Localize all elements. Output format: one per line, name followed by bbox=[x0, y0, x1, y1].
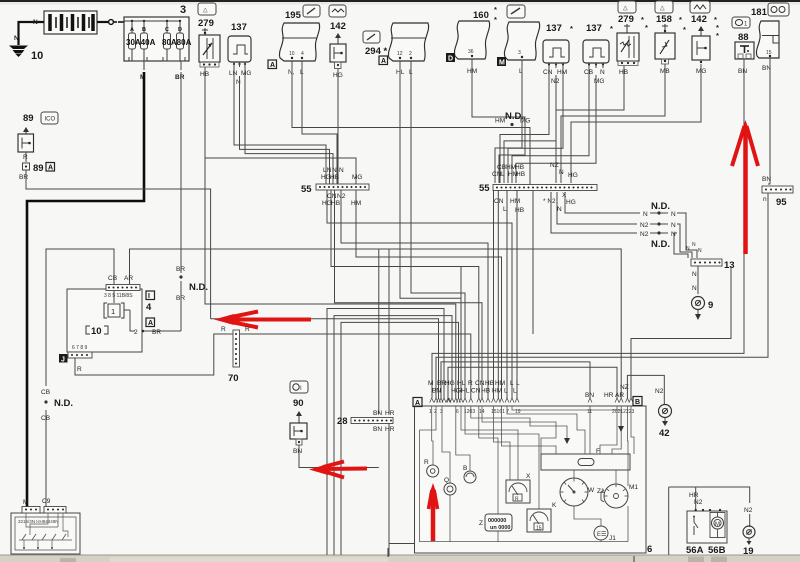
svg-text:BR: BR bbox=[19, 174, 28, 181]
svg-text:J1: J1 bbox=[609, 535, 616, 542]
svg-text:N: N bbox=[643, 211, 648, 218]
vertical BR runs to 28 connector bbox=[379, 249, 389, 414]
svg-text:AR: AR bbox=[124, 275, 133, 282]
wires from 137* first down to 55R bbox=[500, 68, 549, 183]
svg-text:MG: MG bbox=[352, 174, 362, 181]
direct drops from 55 right to cluster bbox=[494, 190, 518, 398]
svg-text:BN: BN bbox=[373, 426, 382, 433]
svg-text:N: N bbox=[686, 246, 690, 252]
svg-text:B: B bbox=[463, 465, 467, 472]
svg-text:15: 15 bbox=[536, 526, 542, 532]
connector B label bbox=[633, 397, 642, 406]
svg-text:BR: BR bbox=[175, 74, 185, 81]
svg-text:HM: HM bbox=[495, 118, 505, 125]
svg-text:HG: HG bbox=[445, 380, 455, 387]
internal symbol 1 bbox=[104, 303, 107, 318]
svg-text:N2: N2 bbox=[744, 507, 753, 514]
svg-text:L: L bbox=[513, 388, 517, 395]
wires from 137* second down to 55R bbox=[512, 68, 589, 183]
svg-text:I: I bbox=[148, 293, 150, 300]
svg-text:N.D.: N.D. bbox=[651, 201, 670, 212]
svg-text:279: 279 bbox=[198, 18, 214, 29]
svg-text:N: N bbox=[671, 222, 676, 229]
svg-text:HB: HB bbox=[481, 388, 490, 395]
wire HM 55L to pin HM2 bbox=[356, 190, 502, 398]
wire battery to fusebox with splice bbox=[97, 20, 124, 25]
svg-text:N: N bbox=[671, 211, 676, 218]
56B motor bbox=[712, 517, 724, 529]
stub row N2-N second bbox=[551, 192, 637, 233]
svg-text:142: 142 bbox=[330, 21, 346, 32]
svg-text:A: A bbox=[415, 400, 420, 407]
lamp E/J1 bbox=[594, 526, 616, 542]
hat wire 2 bbox=[334, 316, 452, 555]
svg-text:3: 3 bbox=[440, 409, 443, 415]
svg-text:L: L bbox=[510, 380, 514, 387]
svg-text:28: 28 bbox=[337, 416, 348, 427]
svg-text:N: N bbox=[559, 169, 564, 176]
svg-text:90: 90 bbox=[293, 398, 304, 409]
svg-text:160: 160 bbox=[473, 10, 489, 21]
svg-text:89: 89 bbox=[33, 163, 44, 174]
svg-text:HM: HM bbox=[510, 198, 520, 205]
fuse D bbox=[179, 21, 181, 33]
wire HG 55L to pin L2 bbox=[327, 190, 512, 398]
svg-text:HB: HB bbox=[331, 200, 340, 207]
svg-text:n: n bbox=[763, 196, 767, 203]
small junction arrows inside bbox=[564, 438, 570, 444]
component 158 with icon bbox=[655, 1, 686, 75]
svg-text:N: N bbox=[33, 19, 38, 26]
svg-text:195: 195 bbox=[285, 10, 302, 21]
svg-text:3215/3N HH94448N: 3215/3N HH94448N bbox=[18, 519, 59, 524]
svg-text:CB: CB bbox=[41, 389, 50, 396]
component 279* right with icon bbox=[617, 1, 648, 76]
connector 4 strip bbox=[106, 285, 140, 291]
svg-text:56B: 56B bbox=[708, 545, 726, 556]
wire AR long run to cluster B bbox=[124, 249, 621, 398]
svg-text:4: 4 bbox=[301, 51, 304, 57]
fuse A bbox=[131, 21, 133, 33]
svg-text:181: 181 bbox=[751, 7, 768, 18]
svg-text:*: * bbox=[494, 15, 497, 24]
svg-text:N: N bbox=[600, 69, 605, 76]
svg-text:88: 88 bbox=[738, 32, 749, 43]
hat wire 1 (cluster up-over-down to page bottom) bbox=[327, 309, 444, 556]
connector 55 left bbox=[301, 167, 369, 207]
svg-text:*: * bbox=[494, 5, 497, 14]
fuse C bbox=[166, 21, 168, 33]
svg-text:BR: BR bbox=[176, 266, 185, 273]
svg-text:10: 10 bbox=[91, 326, 102, 337]
svg-text:N: N bbox=[698, 248, 702, 254]
svg-text:R: R bbox=[221, 326, 226, 333]
svg-text:55: 55 bbox=[301, 184, 312, 195]
svg-text:HB: HB bbox=[485, 380, 494, 387]
svg-text:2: 2 bbox=[434, 409, 437, 415]
svg-text:HB: HB bbox=[515, 164, 524, 171]
bottom left connector box bbox=[11, 499, 80, 554]
svg-text:3 8 5 11B/8S: 3 8 5 11B/8S bbox=[104, 293, 133, 299]
wire battery to ground, label N bbox=[14, 19, 44, 42]
svg-text:6: 6 bbox=[456, 409, 459, 415]
svg-text:BN: BN bbox=[738, 68, 747, 75]
svg-text:HL: HL bbox=[461, 388, 470, 395]
svg-text:N: N bbox=[692, 285, 697, 292]
wires from 195 bbox=[292, 61, 530, 184]
wire pin23 to right riser bbox=[631, 266, 731, 398]
red annotation arrow up (right) bbox=[732, 120, 758, 254]
svg-text:*: * bbox=[570, 24, 573, 33]
connector 55 right bbox=[479, 162, 597, 214]
connector 28 bbox=[337, 410, 395, 433]
component 88 with icon bbox=[732, 17, 754, 75]
wire HB from 279 bbox=[205, 67, 456, 398]
speedometer W bbox=[560, 470, 595, 506]
svg-text:N2: N2 bbox=[640, 231, 649, 238]
svg-text:X: X bbox=[526, 473, 531, 480]
svg-text:HR: HR bbox=[604, 392, 614, 399]
wire CB to connector 4 and down to bottom connector bbox=[41, 249, 117, 505]
connector 70 (vertical) bbox=[228, 330, 240, 384]
svg-text:137: 137 bbox=[586, 23, 602, 34]
svg-text:CB: CB bbox=[497, 164, 506, 171]
svg-text:B: B bbox=[142, 27, 146, 33]
svg-text:N.D.: N.D. bbox=[651, 239, 670, 250]
svg-text:N2: N2 bbox=[694, 499, 703, 506]
bottom window strip bbox=[0, 555, 800, 562]
wires from 137 left to connector 55L bbox=[234, 67, 326, 184]
svg-text:K: K bbox=[552, 502, 557, 509]
connector A label bbox=[413, 398, 422, 407]
svg-text:*: * bbox=[641, 15, 644, 24]
svg-text:L: L bbox=[516, 380, 520, 387]
svg-text:E☰: E☰ bbox=[597, 531, 606, 538]
svg-text:△: △ bbox=[203, 8, 208, 14]
internal sensor B bbox=[456, 406, 476, 483]
red annotation arrow left (lower) bbox=[309, 462, 367, 478]
svg-text:C: C bbox=[165, 27, 169, 33]
pin numbers bbox=[429, 409, 634, 415]
svg-text:*: * bbox=[716, 31, 719, 40]
svg-text:A: A bbox=[270, 62, 275, 69]
svg-text:N.D.: N.D. bbox=[505, 111, 524, 122]
svg-text:36: 36 bbox=[468, 49, 474, 55]
cluster pin labels row2 bbox=[432, 388, 517, 395]
svg-text:R: R bbox=[245, 326, 250, 333]
svg-text:* N2: * N2 bbox=[543, 198, 556, 205]
wire NZ to lamp 42 bbox=[620, 375, 664, 404]
svg-text:158: 158 bbox=[656, 14, 672, 25]
svg-text:R: R bbox=[468, 380, 473, 387]
wire from 142* bbox=[571, 64, 701, 183]
svg-text:2: 2 bbox=[409, 51, 412, 57]
svg-text:CN: CN bbox=[327, 193, 337, 200]
svg-text:BN: BN bbox=[762, 176, 771, 183]
svg-text:LN: LN bbox=[229, 70, 238, 77]
svg-text:M: M bbox=[715, 522, 720, 528]
red annotation arrow left (middle) bbox=[214, 312, 311, 328]
svg-text:CB: CB bbox=[108, 275, 117, 282]
stub row N-N bbox=[565, 192, 640, 213]
wire from 279* bbox=[556, 66, 624, 183]
wire 55R drop x533 bbox=[532, 191, 534, 334]
svg-text:J: J bbox=[61, 357, 65, 364]
svg-text:N: N bbox=[692, 271, 697, 278]
wire BN from 181 to connector 95 bbox=[762, 58, 771, 184]
svg-text:3: 3 bbox=[180, 4, 186, 16]
svg-text:55: 55 bbox=[479, 183, 490, 194]
svg-text:N: N bbox=[692, 242, 696, 248]
svg-text:10: 10 bbox=[31, 50, 43, 62]
svg-text:BR: BR bbox=[152, 329, 161, 336]
svg-text:M: M bbox=[428, 380, 433, 387]
svg-text:R: R bbox=[424, 459, 429, 466]
internal gauge R (left) bbox=[424, 406, 439, 477]
svg-text:HB: HB bbox=[330, 174, 339, 181]
svg-text:137: 137 bbox=[231, 22, 247, 33]
wiper motor assembly 56A 56B bbox=[669, 487, 750, 556]
svg-text:*: * bbox=[645, 23, 648, 32]
hat wire 3 bbox=[341, 322, 459, 555]
svg-text:HM: HM bbox=[492, 388, 502, 395]
lamp 9 bbox=[692, 297, 714, 321]
internal lamp Q bbox=[442, 406, 456, 495]
svg-text:*: * bbox=[610, 24, 613, 33]
jumper HG pin to HR B-pin bbox=[448, 367, 617, 398]
stub row N2-N bbox=[557, 192, 637, 224]
svg-text:HR: HR bbox=[689, 492, 699, 499]
svg-text:R: R bbox=[515, 497, 519, 503]
wire from 142 bbox=[337, 69, 339, 184]
svg-text:D: D bbox=[448, 56, 453, 63]
instrument cluster 6 bbox=[413, 380, 652, 555]
wire BN from 90 to 28 drop bbox=[299, 445, 379, 468]
svg-text:9: 9 bbox=[708, 300, 713, 311]
wire HB 55L to pin CN2 bbox=[335, 190, 483, 398]
wire from flag M bbox=[495, 60, 522, 183]
internal label 10 bbox=[86, 326, 90, 334]
component 137 left bbox=[228, 22, 251, 86]
svg-text:N2: N2 bbox=[640, 222, 649, 229]
connector 95 bbox=[762, 186, 793, 208]
svg-text:HB: HB bbox=[516, 171, 525, 178]
svg-text:ICO: ICO bbox=[45, 117, 56, 123]
svg-text:BN: BN bbox=[373, 410, 382, 417]
wire M from fuse B (thick) bbox=[27, 61, 145, 506]
svg-text:W: W bbox=[588, 487, 595, 494]
component 160 flag with icon bbox=[446, 5, 525, 75]
svg-text:R: R bbox=[23, 154, 28, 161]
svg-text:N: N bbox=[557, 206, 562, 213]
svg-text:M1: M1 bbox=[629, 484, 638, 491]
svg-text:142: 142 bbox=[691, 14, 707, 25]
ground 10 bbox=[9, 38, 43, 62]
jumper BR pin to BN B-pin bbox=[441, 362, 590, 398]
lamp 19 bbox=[743, 507, 755, 557]
svg-text:A: A bbox=[48, 165, 53, 172]
svg-text:A: A bbox=[148, 320, 153, 327]
svg-text:L: L bbox=[504, 388, 508, 395]
svg-text:M: M bbox=[499, 60, 505, 67]
wire R from J via 70 to cluster pin R bbox=[75, 326, 471, 398]
component 142 left with icon bbox=[329, 5, 346, 79]
svg-text:89: 89 bbox=[23, 113, 34, 124]
svg-text:LN: LN bbox=[323, 167, 332, 174]
svg-text:10: 10 bbox=[289, 51, 295, 57]
svg-text:B: B bbox=[635, 399, 640, 406]
wire from 160 flag to N.D. splice HM-MG bbox=[472, 59, 530, 183]
svg-text:HB: HB bbox=[515, 207, 524, 214]
component box 1 (check control unit) bbox=[59, 285, 181, 364]
fuse B bbox=[143, 21, 145, 33]
svg-text:R: R bbox=[77, 366, 82, 373]
svg-text:N: N bbox=[339, 167, 344, 174]
svg-text:HR: HR bbox=[385, 426, 395, 433]
N.D. stub rows right bbox=[551, 192, 702, 258]
svg-text:6: 6 bbox=[647, 544, 652, 555]
svg-text:MG: MG bbox=[241, 70, 251, 77]
component 142* right with icon bbox=[690, 1, 719, 75]
svg-text:AR: AR bbox=[615, 392, 624, 399]
svg-text:6 7 8 9: 6 7 8 9 bbox=[72, 345, 88, 351]
svg-text:1203: 1203 bbox=[464, 409, 475, 415]
wire 89BR run into cluster pin BN bbox=[211, 319, 439, 398]
56A switch bbox=[694, 517, 698, 535]
svg-text:80A80A: 80A80A bbox=[162, 38, 192, 47]
lamp 42 bbox=[659, 405, 672, 440]
svg-text:HL: HL bbox=[457, 380, 466, 387]
svg-text:BN: BN bbox=[293, 448, 302, 455]
svg-text:C9: C9 bbox=[42, 498, 51, 505]
cluster pin labels row1 bbox=[428, 380, 520, 387]
component 294 flag with icon bbox=[363, 23, 429, 76]
wires from 294 bbox=[400, 61, 461, 398]
svg-text:CN: CN bbox=[494, 198, 504, 205]
wires below 55 left staircase to cluster bbox=[327, 190, 512, 398]
svg-text:CN: CN bbox=[471, 388, 481, 395]
svg-text:N.D.: N.D. bbox=[54, 398, 73, 409]
battery bbox=[44, 11, 97, 34]
svg-text:000000: 000000 bbox=[488, 518, 506, 524]
pin brackets bbox=[129, 57, 147, 61]
svg-text:N: N bbox=[236, 79, 241, 86]
wire HR down from 28 to cluster left edge bbox=[388, 422, 390, 556]
svg-text:13: 13 bbox=[724, 260, 735, 271]
svg-text:HG: HG bbox=[566, 199, 576, 206]
svg-text:N: N bbox=[332, 167, 337, 174]
svg-text:HM: HM bbox=[495, 380, 505, 387]
svg-text:2: 2 bbox=[134, 329, 138, 336]
svg-text:137: 137 bbox=[546, 23, 562, 34]
svg-text:NZ: NZ bbox=[550, 162, 559, 169]
svg-text:CN: CN bbox=[543, 69, 553, 76]
svg-text:N2: N2 bbox=[551, 78, 560, 85]
red annotation arrow up (cluster) bbox=[429, 483, 438, 541]
F connector bar bbox=[541, 406, 634, 486]
wire 89 BR to junction and down bbox=[26, 170, 211, 319]
internal relay wiring bbox=[26, 513, 58, 527]
svg-text:BN: BN bbox=[432, 388, 441, 395]
wire from 158 bbox=[561, 64, 665, 183]
svg-text:HR: HR bbox=[385, 410, 395, 417]
svg-text:3: 3 bbox=[518, 50, 521, 56]
svg-text:15: 15 bbox=[766, 50, 772, 56]
svg-text:1: 1 bbox=[111, 307, 115, 316]
svg-text:279: 279 bbox=[618, 14, 634, 25]
tachometer M1 bbox=[597, 470, 638, 508]
component 89 with icon bbox=[18, 112, 58, 181]
svg-text:*: * bbox=[679, 15, 682, 24]
svg-text:D: D bbox=[178, 27, 182, 33]
svg-text:*: * bbox=[683, 25, 686, 34]
svg-text:HM: HM bbox=[557, 69, 567, 76]
wire BR from fuse D bbox=[175, 61, 208, 331]
fusebox 3 bbox=[124, 4, 192, 61]
component 137* second bbox=[583, 23, 613, 85]
svg-text:M: M bbox=[23, 499, 28, 506]
svg-text:N2: N2 bbox=[655, 388, 664, 395]
component 137* first bbox=[543, 23, 573, 85]
top window edge strip bbox=[0, 0, 800, 2]
internal gauge K bbox=[465, 406, 557, 532]
svg-text:Z: Z bbox=[479, 520, 483, 527]
svg-text:L: L bbox=[501, 171, 505, 178]
component 195 flag with icon bbox=[268, 5, 320, 76]
component 181 flag with icon bbox=[751, 3, 789, 72]
internal gauge X bbox=[461, 406, 531, 503]
internal bottom bus bbox=[420, 406, 628, 542]
svg-text:CN: CN bbox=[475, 380, 485, 387]
svg-text:un 0000: un 0000 bbox=[490, 525, 510, 531]
svg-text:HG: HG bbox=[451, 388, 461, 395]
svg-text:95: 95 bbox=[776, 197, 787, 208]
svg-text:56A: 56A bbox=[686, 545, 704, 556]
wire BN from 88 down (under red arrow) bbox=[432, 59, 744, 398]
svg-text:N,: N, bbox=[288, 69, 295, 76]
svg-text:△: △ bbox=[623, 6, 628, 12]
svg-text:30A40A: 30A40A bbox=[126, 38, 156, 47]
svg-text:HG: HG bbox=[568, 172, 578, 179]
bottom strip tabs bbox=[60, 548, 727, 562]
svg-text:4: 4 bbox=[146, 302, 152, 313]
wire N2 55L to pin HB bbox=[341, 190, 488, 398]
wire 13 to lamp 9 bbox=[692, 266, 698, 294]
svg-text:△: △ bbox=[660, 6, 665, 12]
component flag M (second windscreen flag) bbox=[497, 22, 540, 75]
svg-text:A: A bbox=[381, 58, 386, 65]
wire from 95 down to HR run bbox=[436, 193, 768, 398]
connector 13 bbox=[691, 259, 735, 271]
odometer Z bbox=[479, 406, 512, 531]
component 90 with icon bbox=[290, 381, 308, 455]
component 279 left with icon bbox=[198, 3, 220, 78]
svg-text:19: 19 bbox=[743, 546, 754, 557]
svg-text:42: 42 bbox=[659, 428, 670, 439]
wire CN 55L to pin CN bbox=[331, 190, 461, 298]
pin arrows row bbox=[430, 398, 633, 403]
svg-text:70: 70 bbox=[228, 373, 239, 384]
svg-text:A: A bbox=[130, 27, 134, 33]
svg-text:294 *: 294 * bbox=[365, 46, 387, 57]
svg-text:12: 12 bbox=[397, 51, 403, 57]
svg-text:L: L bbox=[503, 206, 507, 213]
internal distribution wires bbox=[471, 406, 621, 480]
